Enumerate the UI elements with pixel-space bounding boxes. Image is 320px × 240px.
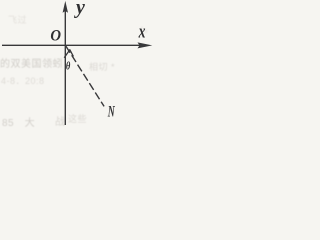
faint bleed-through text row A [0,55,63,70]
x-axis arrowhead [138,42,153,48]
svg-text:y: y [73,0,86,19]
faint smudge top-left [8,13,27,26]
angle arc [64,50,73,58]
svg-text:O: O [50,27,61,45]
faint bleed-through text row D [68,112,87,125]
svg-text:θ: θ [66,60,71,73]
y-axis arrowhead [63,1,68,13]
y-axis [64,10,66,125]
svg-text:x: x [138,20,146,42]
faint bleed-through text row B [1,74,45,87]
x-axis [2,44,140,46]
faint smudge top-right corner [140,24,153,35]
faint bleed-through text row E [2,114,35,129]
faint bleed-through char near axis bottom [55,113,66,128]
dashed line O to N [66,46,104,106]
svg-text:N: N [107,102,115,120]
faint bleed-through text row C [89,60,115,73]
